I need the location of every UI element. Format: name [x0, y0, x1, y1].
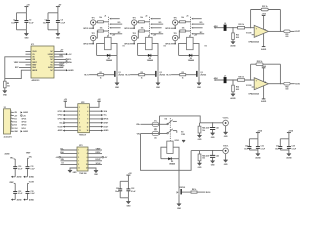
svg-text:RLY1: RLY1 — [84, 75, 88, 77]
svg-text:1k: 1k — [182, 78, 184, 80]
connector X1 body — [4, 107, 12, 138]
ground AGND — [230, 42, 236, 48]
svg-text:GND: GND — [156, 87, 161, 89]
power flag +5VA — [256, 130, 263, 139]
svg-text:C4: C4 — [61, 18, 64, 21]
wire feedback top — [251, 63, 281, 65]
svg-text:GND: GND — [3, 95, 8, 97]
ground — [255, 150, 261, 160]
wire — [141, 123, 153, 125]
capacitor C17 — [275, 139, 282, 151]
svg-text:GPIO6: GPIO6 — [165, 44, 170, 46]
testpoint TP4 — [132, 32, 137, 41]
resistor R1 gate — [89, 72, 114, 80]
node GPIO5 label — [165, 28, 176, 31]
svg-text:K2: K2 — [164, 45, 166, 47]
svg-text:J3: J3 — [186, 15, 189, 17]
wire top rail — [17, 12, 27, 14]
svg-text:GPIO3: GPIO3 — [21, 125, 26, 127]
svg-text:10k: 10k — [202, 130, 205, 132]
diode D5 — [168, 157, 175, 165]
connector JP2 pin row 6 right — [89, 126, 109, 129]
wire input — [214, 27, 254, 29]
connector JP3 pin row 5 right — [88, 163, 102, 165]
svg-text:IO1: IO1 — [14, 118, 17, 120]
svg-text:1k: 1k — [100, 78, 102, 80]
svg-text:1k: 1k — [141, 78, 143, 80]
ground — [224, 132, 229, 138]
svg-text:VREF: VREF — [26, 153, 31, 155]
wire source — [157, 77, 159, 83]
wire drain — [157, 55, 159, 71]
wire — [174, 25, 176, 28]
connector JP2 pin row 5 right — [89, 122, 109, 125]
svg-text:TP5: TP5 — [174, 17, 177, 19]
wire pin11 net — [59, 55, 63, 57]
svg-text:DOUT: DOUT — [104, 126, 110, 128]
wire bottom rail — [48, 29, 58, 31]
fuse F1 — [152, 120, 159, 130]
connector JP2 pin row 2 left — [58, 110, 78, 113]
capacitor C41 — [206, 122, 219, 130]
power flag +5V right — [89, 99, 101, 107]
svg-text:C42: C42 — [216, 154, 219, 157]
svg-text:K1: K1 — [123, 45, 125, 47]
ground — [224, 160, 229, 166]
capacitor C42 — [206, 150, 219, 158]
wire top rail — [249, 138, 258, 140]
svg-text:GND: GND — [24, 37, 29, 39]
diode D1 — [106, 54, 112, 62]
svg-text:0.1uF: 0.1uF — [18, 168, 23, 170]
resistor R14 — [139, 17, 145, 23]
transistor Q1 — [114, 71, 124, 77]
wire drain — [116, 55, 118, 71]
wire flyback bottom — [161, 158, 179, 160]
node AGND flag — [59, 69, 74, 72]
diode D3 — [188, 54, 194, 62]
ic U1 right pin 12 — [50, 59, 59, 61]
wire — [232, 92, 234, 94]
ic U1 left pin 2 — [26, 54, 36, 56]
wire — [212, 158, 214, 161]
svg-text:GPIO4: GPIO4 — [103, 118, 108, 121]
svg-text:600: 600 — [286, 89, 289, 91]
diode D2 — [147, 54, 153, 62]
wire — [133, 25, 135, 28]
svg-text:GND: GND — [73, 172, 77, 174]
node AGND flag — [11, 198, 22, 201]
ic U1 right pin 14 — [50, 65, 59, 67]
svg-text:AGND: AGND — [255, 157, 261, 160]
wire bottom rail — [249, 149, 258, 151]
svg-text:+5V: +5V — [112, 35, 116, 37]
junction — [280, 83, 281, 84]
connector JP2 pin row 5 left — [59, 122, 77, 125]
connector JP2 pin row 6 left — [58, 126, 78, 129]
svg-text:22uF: 22uF — [206, 155, 211, 157]
power flag +5V — [24, 5, 30, 13]
svg-text:VREF: VREF — [9, 182, 14, 184]
svg-text:VREF: VREF — [14, 62, 20, 64]
svg-text:RLY2: RLY2 — [125, 75, 129, 77]
connector JP2 pin row 2 right — [89, 110, 107, 113]
junction — [232, 79, 233, 80]
capacitor C22 — [126, 181, 136, 198]
wire — [158, 133, 161, 135]
svg-text:11: 11 — [79, 126, 81, 128]
svg-text:C22: C22 — [131, 188, 134, 190]
ic U1 left pin 3 — [26, 57, 36, 59]
svg-text:K3: K3 — [205, 45, 207, 47]
wire — [199, 161, 201, 163]
connector J7 pad — [224, 75, 227, 83]
connector J1 — [104, 15, 122, 37]
svg-text:GPIO1: GPIO1 — [83, 28, 88, 30]
wire top rail — [48, 12, 58, 14]
power flag +5V — [126, 173, 132, 181]
fuse F2 — [152, 130, 159, 140]
svg-text:TP2: TP2 — [92, 33, 95, 35]
svg-text:22uF: 22uF — [206, 128, 211, 130]
wire coil left tap — [97, 43, 105, 55]
wire top rail — [120, 180, 128, 182]
svg-text:TSW-107: TSW-107 — [79, 134, 86, 136]
svg-text:1N4448: 1N4448 — [106, 59, 112, 62]
svg-text:Q4: Q4 — [176, 191, 178, 194]
connector JP3 pin 11 left ground — [68, 168, 77, 174]
ground — [24, 30, 29, 40]
svg-text:GPIO2: GPIO2 — [58, 115, 63, 117]
svg-text:C2: C2 — [29, 19, 31, 21]
svg-text:IO3: IO3 — [14, 125, 17, 127]
svg-text:AGND: AGND — [23, 111, 29, 114]
svg-text:J7: J7 — [224, 75, 226, 77]
svg-text:+5V: +5V — [23, 115, 27, 117]
wire bottom rail — [120, 197, 128, 199]
relay K4 contact 2 — [160, 129, 177, 134]
svg-text:11: 11 — [78, 168, 80, 170]
wire rail2 — [191, 150, 223, 152]
svg-text:RLY3: RLY3 — [166, 75, 170, 77]
junction — [250, 27, 251, 28]
wire — [178, 31, 179, 38]
resistor R41 bleeder — [198, 123, 205, 133]
wire feedback right — [279, 64, 281, 84]
wire — [96, 21, 97, 24]
wire — [290, 30, 295, 32]
capacitor C2 — [24, 13, 34, 30]
node GPIO4 label — [124, 43, 135, 46]
connector JP3 pin row 5 left — [61, 163, 78, 165]
svg-text:22-23-2071: 22-23-2071 — [4, 136, 12, 138]
wire — [141, 133, 153, 135]
power stub V- — [261, 86, 267, 103]
node AGND flag — [11, 176, 22, 179]
wire pin15 net — [59, 66, 65, 68]
svg-text:AGND: AGND — [261, 48, 267, 51]
svg-text:GPIO4: GPIO4 — [124, 43, 130, 46]
svg-text:J6: J6 — [224, 23, 226, 25]
svg-text:49.9: 49.9 — [236, 36, 239, 39]
svg-text:F1: F1 — [154, 120, 156, 122]
svg-text:GPIO2: GPIO2 — [21, 122, 26, 124]
node VCOM label — [246, 85, 254, 87]
svg-text:AGND: AGND — [230, 97, 236, 100]
connector JP3 pin row 4 right — [88, 159, 102, 161]
svg-text:GND: GND — [198, 139, 202, 141]
connector JP3 pin row 2 right — [88, 152, 102, 154]
svg-text:GND: GND — [197, 87, 202, 89]
svg-text:AGND: AGND — [230, 45, 236, 48]
svg-text:0.1uF: 0.1uF — [292, 149, 297, 151]
node SCL flag — [59, 59, 72, 62]
wire source — [178, 194, 180, 203]
resistor R9 — [4, 81, 11, 88]
connector X1 pin 4 — [11, 119, 27, 123]
connector JP3 pin 12 right ground — [88, 168, 99, 176]
svg-text:10k: 10k — [181, 17, 184, 19]
power flag +5V left — [64, 99, 78, 107]
power stub V- — [261, 34, 267, 51]
capacitor C3 — [43, 13, 50, 30]
svg-text:SCLK: SCLK — [96, 163, 101, 165]
svg-text:TP6: TP6 — [174, 33, 177, 35]
svg-text:600: 600 — [286, 36, 289, 38]
testpoint TP3 — [132, 17, 137, 25]
transistor Q2 — [155, 71, 165, 77]
connector X1 pin 2 — [11, 114, 27, 117]
connector JP3 pin row 1 left — [60, 148, 77, 150]
wire bottom route — [5, 70, 26, 78]
ground — [115, 83, 120, 89]
wire left bus — [5, 57, 26, 81]
svg-text:VOUT+: VOUT+ — [223, 118, 230, 120]
connector JP3 pin row 3 left — [56, 156, 77, 159]
wire — [232, 40, 234, 42]
relay K4 contact 1 — [160, 120, 177, 125]
relay K4 linkage — [169, 118, 171, 141]
svg-text:C21: C21 — [116, 188, 119, 190]
svg-text:DRDY: DRDY — [60, 66, 66, 68]
svg-text:49.9: 49.9 — [236, 88, 239, 91]
svg-text:1N4448: 1N4448 — [169, 163, 175, 166]
connector JP3 pin row 1 right — [88, 148, 102, 150]
svg-text:VIN-: VIN- — [29, 156, 33, 158]
wire — [144, 21, 149, 23]
svg-text:GPIO2: GPIO2 — [83, 44, 88, 46]
wire coil left tap — [179, 43, 187, 55]
wire drain — [198, 55, 200, 71]
ferrite bead FB2 — [284, 82, 290, 90]
connector X1 pin 1 — [11, 111, 29, 114]
wire flyback bottom — [138, 54, 158, 56]
svg-text:+5VA: +5VA — [288, 130, 293, 133]
ic U1 left pin 6 — [26, 64, 38, 67]
wire — [137, 31, 138, 38]
testpoint TP1 — [91, 17, 96, 25]
connector JP3 body — [77, 145, 88, 175]
svg-text:J2: J2 — [145, 15, 148, 17]
ground AGND — [230, 94, 236, 100]
svg-text:VOUT-: VOUT- — [223, 146, 229, 148]
ic U1 body — [31, 44, 54, 82]
svg-text:TP1: TP1 — [92, 17, 95, 19]
svg-text:GND: GND — [177, 208, 182, 210]
resistor R25 series — [238, 77, 245, 82]
svg-text:COM: COM — [181, 134, 185, 136]
svg-text:+5V: +5V — [68, 54, 72, 56]
svg-text:2N7002: 2N7002 — [118, 74, 124, 76]
svg-text:GPIO1: GPIO1 — [58, 111, 63, 113]
svg-text:GND: GND — [198, 167, 202, 169]
resistor R17 — [180, 27, 186, 32]
svg-text:AVDD: AVDD — [48, 66, 53, 69]
node VCOM label — [28, 182, 35, 184]
svg-text:2A: 2A — [154, 137, 157, 140]
svg-text:C15: C15 — [245, 145, 248, 147]
ground coil flag — [182, 140, 185, 142]
svg-text:OPA2340UA: OPA2340UA — [248, 93, 259, 96]
svg-text:IO2: IO2 — [14, 122, 17, 124]
capacitor C33 — [26, 183, 36, 199]
svg-text:SCL: SCL — [104, 115, 108, 117]
node GPIO3 label — [124, 28, 135, 31]
svg-text:+5VA: +5VA — [257, 130, 262, 133]
junction — [280, 31, 281, 32]
svg-text:GND: GND — [224, 164, 228, 166]
power flag +5VA — [287, 130, 294, 139]
svg-text:10k: 10k — [141, 27, 144, 29]
resistor R15 — [139, 27, 145, 32]
wire return loop — [141, 134, 192, 171]
svg-text:C16: C16 — [261, 145, 264, 147]
wire coil right tap — [111, 43, 117, 55]
ic U1 left pin 5 — [26, 62, 38, 64]
svg-text:C18: C18 — [292, 145, 295, 147]
ground — [197, 163, 202, 169]
resistor R22 shunt — [232, 33, 239, 40]
wire feedback left — [250, 64, 252, 80]
wire source — [116, 77, 118, 83]
svg-text:10k: 10k — [100, 27, 103, 29]
wire — [232, 28, 234, 33]
capacitor C30 — [13, 159, 23, 177]
power flag +5VA — [261, 65, 266, 82]
svg-text:+5V: +5V — [104, 157, 108, 159]
svg-text:VIN: VIN — [14, 112, 17, 114]
op-amp U2B — [254, 78, 268, 90]
wire — [133, 41, 135, 44]
node VIN+ label — [5, 153, 16, 160]
svg-text:GND: GND — [115, 87, 120, 89]
connector J6 pad — [224, 23, 227, 31]
wire coil right tap — [193, 43, 199, 55]
wire — [212, 130, 214, 133]
svg-text:+5V: +5V — [153, 35, 157, 37]
svg-text:ADDR: ADDR — [32, 69, 38, 72]
svg-text:10k: 10k — [140, 17, 143, 19]
svg-text:0.1uF: 0.1uF — [131, 191, 136, 193]
svg-text:GPIO1: GPIO1 — [21, 118, 26, 120]
wire bottom rail — [17, 29, 27, 31]
svg-text:10uF: 10uF — [275, 149, 280, 151]
wire — [225, 126, 227, 132]
svg-text:GND: GND — [224, 136, 228, 138]
resistor R13 — [98, 27, 104, 32]
connector J3 — [186, 15, 204, 37]
svg-text:1N4448: 1N4448 — [147, 59, 153, 62]
svg-text:AGND: AGND — [261, 100, 267, 103]
wire contact2 stub label — [181, 132, 185, 136]
svg-text:GND: GND — [94, 174, 98, 176]
ground — [211, 161, 216, 167]
svg-text:CLK: CLK — [14, 128, 18, 130]
wire feedback top — [251, 9, 281, 11]
svg-text:0.1uF: 0.1uF — [61, 23, 66, 25]
capacitor C4 — [56, 13, 66, 30]
svg-text:GPIO5: GPIO5 — [165, 28, 170, 30]
svg-text:0.1uF: 0.1uF — [18, 193, 23, 195]
svg-text:10: 10 — [87, 122, 89, 124]
svg-text:10: 10 — [86, 164, 88, 166]
svg-text:10k: 10k — [99, 17, 102, 19]
connector JP2 body — [78, 102, 90, 136]
node VREF label — [14, 62, 26, 64]
svg-text:10uF: 10uF — [115, 191, 120, 193]
wire top rail — [280, 138, 289, 140]
capacitor C15 — [244, 139, 251, 151]
svg-text:RLY4: RLY4 — [206, 191, 211, 194]
svg-text:F2: F2 — [154, 130, 156, 132]
node VCOM flag — [59, 53, 72, 56]
connector X1 pin 7 — [11, 130, 29, 133]
svg-text:TP3: TP3 — [133, 17, 136, 19]
ground — [197, 135, 202, 141]
wire — [174, 41, 176, 44]
junction — [250, 79, 251, 80]
relay K1 coil — [105, 35, 125, 50]
wire coil right tap — [152, 43, 158, 55]
svg-text:AGND: AGND — [286, 157, 292, 160]
connector JP2 pin row 4 right — [89, 118, 108, 121]
wire — [186, 30, 191, 32]
wire — [96, 31, 97, 38]
resistor R16 — [180, 17, 186, 23]
relay K3 coil — [187, 35, 207, 50]
svg-text:AGND: AGND — [29, 176, 35, 179]
svg-text:ADS1115: ADS1115 — [32, 79, 41, 82]
node AGND flag — [23, 176, 34, 179]
wire coil left tap — [161, 147, 167, 159]
testpoint TP6 — [173, 33, 178, 41]
svg-text:R1: R1 — [100, 72, 102, 74]
svg-text:VIN+: VIN+ — [10, 158, 14, 160]
svg-text:TP4: TP4 — [133, 32, 136, 35]
svg-text:R23 1k: R23 1k — [238, 24, 245, 26]
resistor R23 series — [238, 24, 245, 29]
svg-text:J1: J1 — [104, 15, 107, 17]
resistor R24 shunt — [232, 85, 239, 92]
wire input — [214, 79, 254, 81]
node GPIO2 label — [83, 43, 94, 46]
wire — [92, 41, 94, 44]
wire pole rail — [159, 116, 161, 135]
svg-text:GND: GND — [211, 165, 215, 167]
svg-text:0.1uF: 0.1uF — [30, 168, 35, 170]
ic U1 right pin 15 — [48, 66, 59, 69]
wire feedback left — [250, 10, 252, 28]
